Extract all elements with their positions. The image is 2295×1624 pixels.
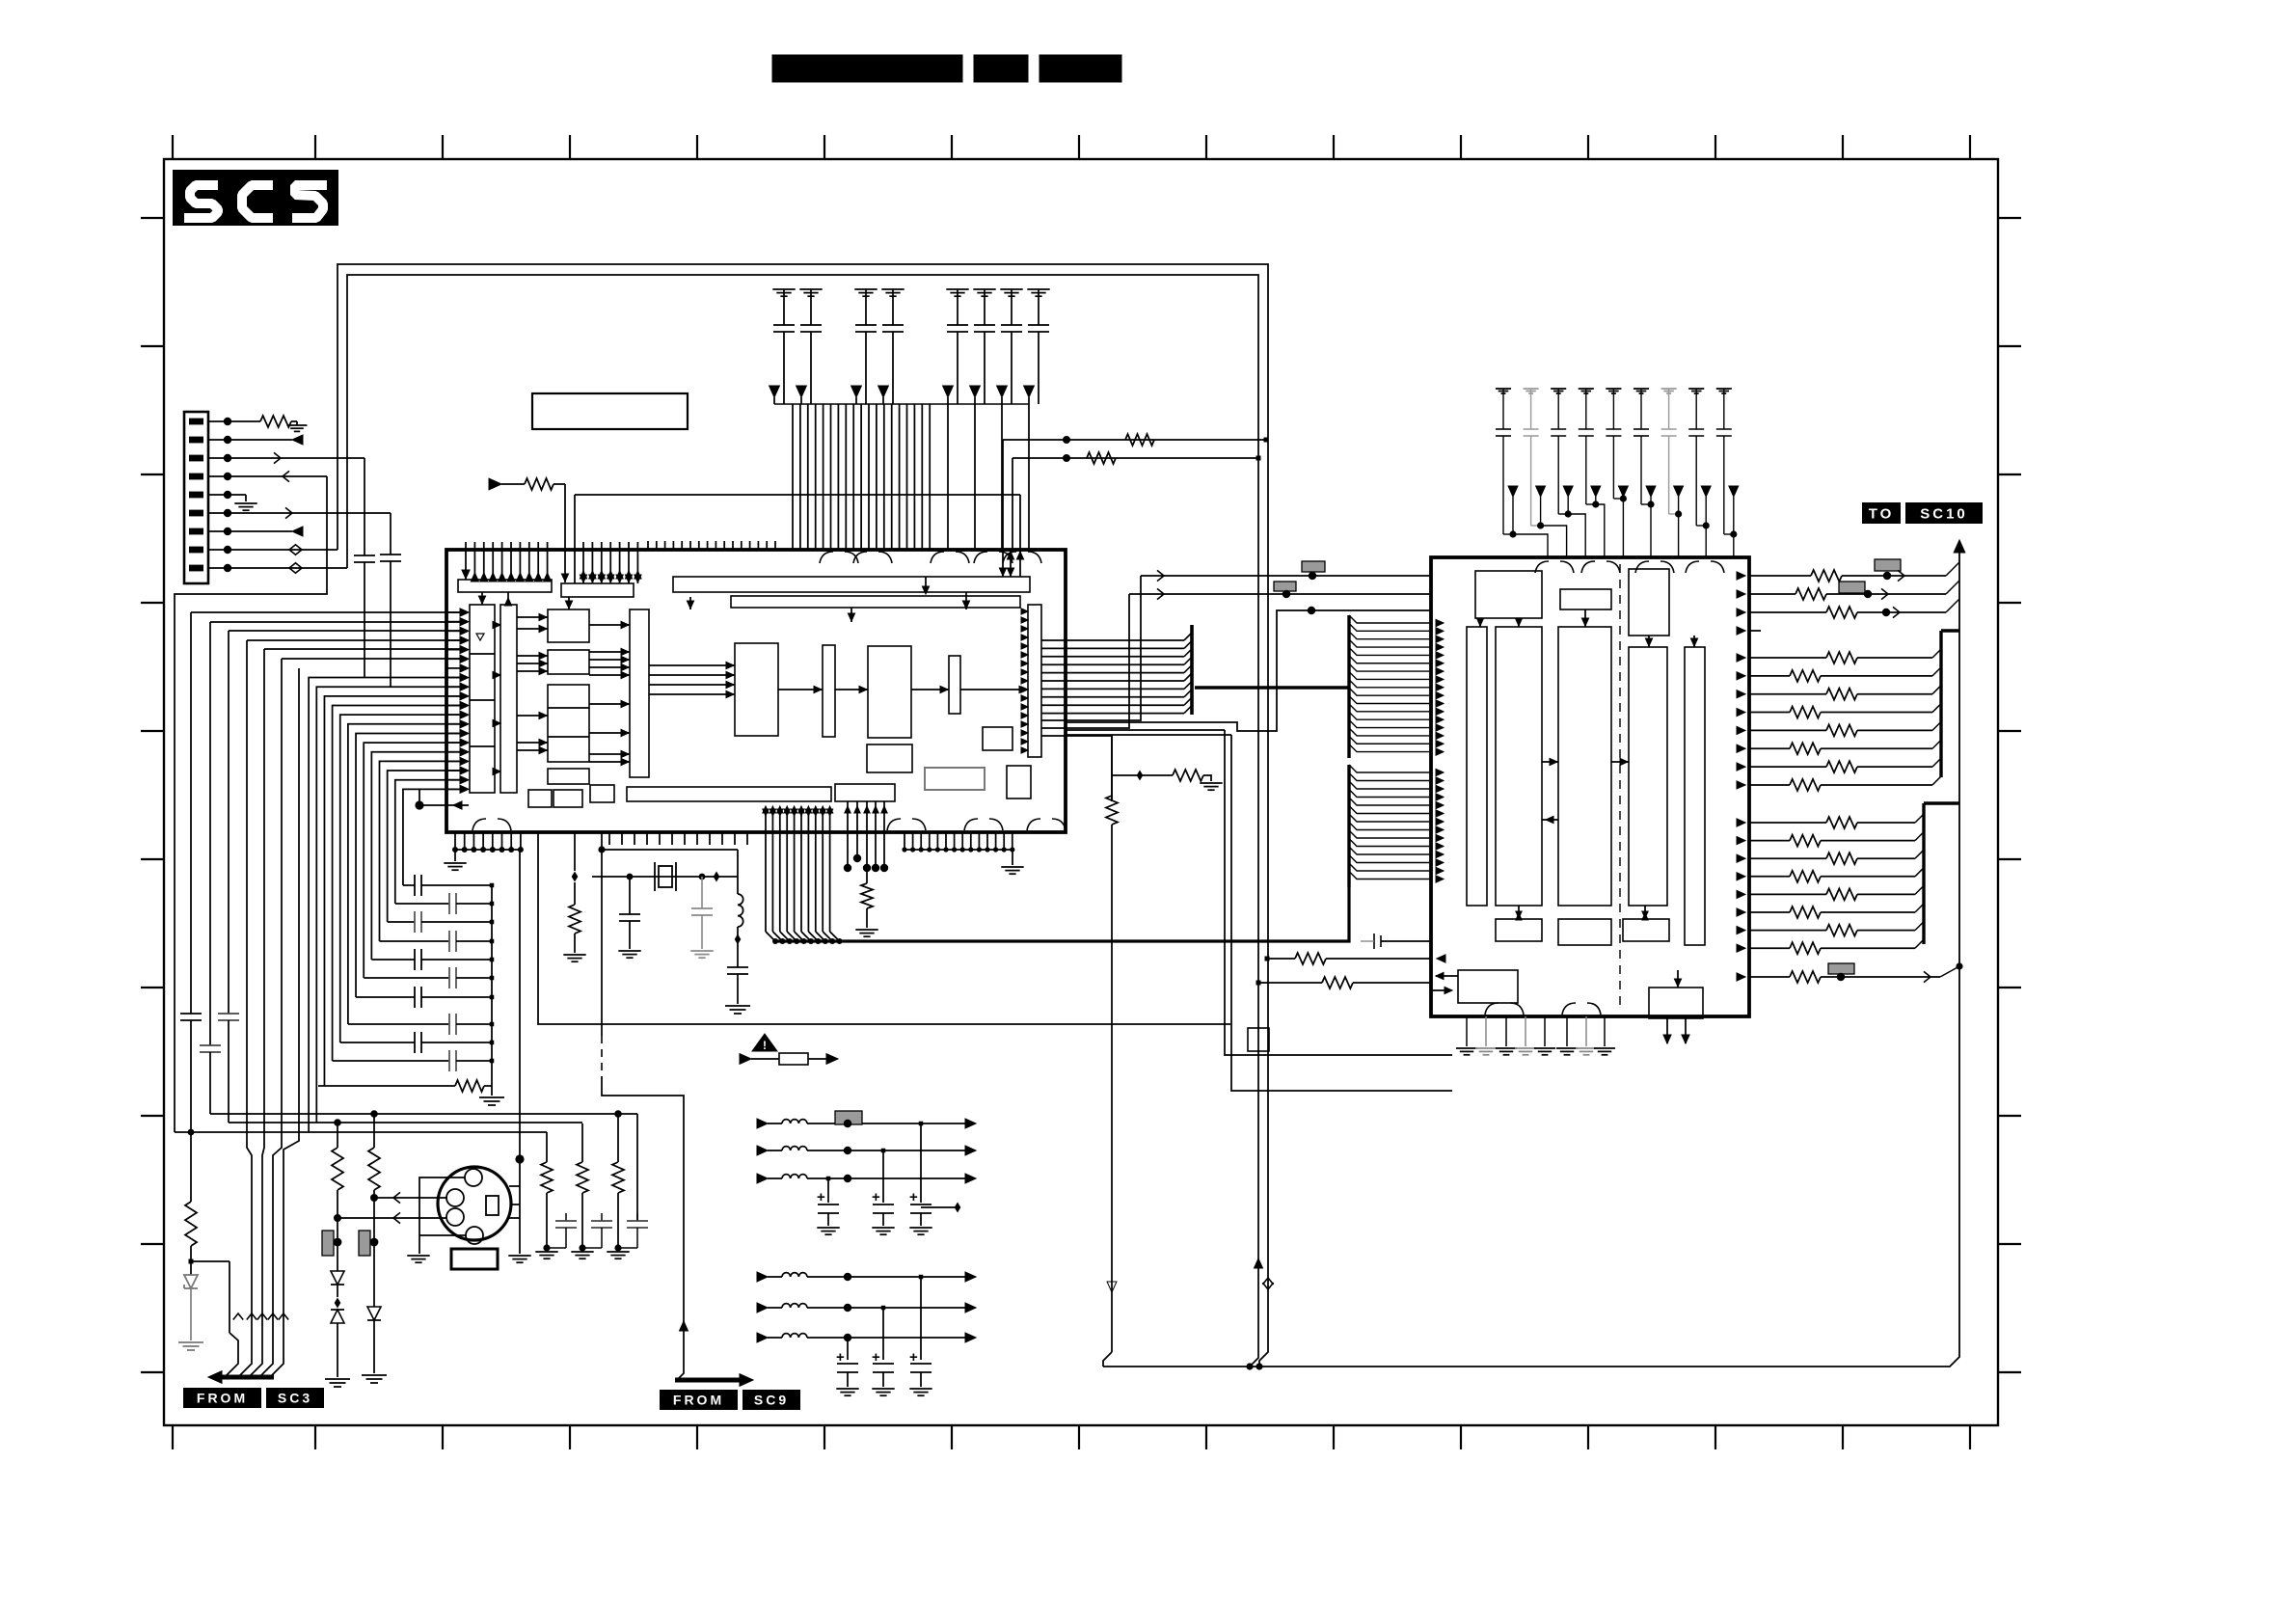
- U1 input header 1: [458, 580, 552, 592]
- diamond node: [735, 934, 742, 945]
- wire J1 pin2 with arrow: [228, 439, 292, 441]
- svg-text:SC3: SC3: [278, 1391, 312, 1406]
- IC U1 bottom-edge bus arcs: [472, 819, 1066, 830]
- connector J1: [184, 412, 208, 583]
- U2 decoupling cap bank: [1496, 389, 1739, 557]
- resistor R below U1: [866, 868, 868, 883]
- U2 bottom ground pins: [1456, 1003, 1615, 1055]
- connector J1 pin wires: [208, 418, 260, 572]
- capacitor C at drop: [727, 966, 748, 968]
- U1 block b4: [548, 769, 589, 784]
- row2 to U2 with gray box: [1129, 593, 1431, 595]
- IC U1 top-edge bus arcs: [820, 552, 1041, 563]
- U2 left block arrows: [1436, 972, 1444, 979]
- capacitor ladder to bus: [333, 875, 495, 1071]
- U1 long bar A: [673, 577, 1030, 592]
- LC filter rows lower: [757, 1272, 976, 1342]
- left wire x198 chain: [190, 612, 192, 1014]
- resistor on J1 pin1: [260, 416, 291, 427]
- title bar redaction 2: [974, 55, 1028, 82]
- resistor R x388: [373, 1114, 375, 1148]
- wire J1 pin9: [228, 567, 347, 569]
- U1 block b3: [548, 685, 589, 762]
- ground below drop: [725, 1005, 750, 1007]
- svg-text:+: +: [817, 1189, 825, 1205]
- U2 internal wires: [1476, 609, 1697, 988]
- resistor R with diamond below U1: [574, 832, 576, 871]
- DIN connector circle: [438, 1167, 511, 1240]
- U1 block mid-bottom: [867, 744, 912, 772]
- DIN key rect: [486, 1196, 499, 1215]
- U2 bottom-right block pins: [1666, 1018, 1668, 1043]
- U1 block b6: [553, 790, 582, 807]
- svg-text:SC10: SC10: [1920, 505, 1968, 522]
- TO SC10 arrowhead: [1954, 540, 1965, 553]
- wire J1 pin6: [228, 512, 391, 514]
- IC U2 outline: [1431, 557, 1749, 1016]
- value box (blank): [532, 393, 688, 429]
- U2 output last row: [1737, 973, 1745, 981]
- U1 block s3: [1007, 766, 1031, 798]
- sheet label SC5: [173, 170, 338, 226]
- diamond stub: [921, 1206, 956, 1208]
- wire right drop: [737, 850, 739, 894]
- U1 block b5: [528, 790, 552, 807]
- U1 left lower pin: [415, 800, 423, 809]
- label FROM SC9: [660, 1390, 738, 1410]
- U1 input header 2: [561, 583, 634, 597]
- ground at J1 pin1: [291, 420, 297, 422]
- U1 block s1: [983, 727, 1012, 750]
- zener diode D x198: [184, 1275, 198, 1288]
- arrow on bus pair: [1255, 1259, 1263, 1268]
- long wire x1153 with resistor: [1111, 736, 1113, 801]
- U1 bottom-right pins to ground: [902, 832, 1023, 874]
- title bar redaction 1: [772, 55, 962, 82]
- feed wire y1164: [229, 1122, 582, 1123]
- small box on pair: [1248, 1028, 1269, 1051]
- U1 bottom-left pins to ground: [444, 832, 524, 870]
- U2 row stub: [1737, 627, 1745, 635]
- junction dots bottom bus: [1246, 1363, 1253, 1369]
- U1 bottom header 1: [627, 787, 831, 801]
- wire row to riser A: [1041, 576, 1141, 720]
- svg-text:FROM: FROM: [197, 1391, 248, 1406]
- U1 bottom header 2: [835, 784, 895, 801]
- inductor L vertical: [738, 894, 743, 927]
- U1 block s2 gray: [925, 768, 985, 790]
- wire row to riser B: [1041, 594, 1129, 728]
- capacitor C below crystal right: [701, 877, 703, 908]
- LC filter rows upper: [757, 1119, 976, 1183]
- electrolytic caps lower: [836, 1277, 932, 1395]
- diode D x388: [367, 1307, 381, 1320]
- U2 bottom-left block: [1458, 970, 1518, 1003]
- U1 header1 pin arrows: [462, 542, 552, 582]
- U1 block big1: [735, 643, 778, 736]
- U1 long bar B: [731, 596, 1020, 608]
- U1 block col m: [823, 645, 835, 737]
- FROM SC9 bus: [675, 1378, 747, 1383]
- U1 output fan to bus spine: [1041, 625, 1192, 715]
- resistor to ground mid: [1137, 771, 1144, 781]
- border frame: [141, 135, 2021, 1449]
- input arrow with resistor R: [489, 478, 501, 490]
- left wire x218 feed: [209, 622, 211, 1045]
- svg-text:!: !: [763, 1039, 767, 1052]
- resistor R x568: [546, 1132, 548, 1162]
- wire riser pair to U2 bottom: [1225, 730, 1452, 1055]
- capacitor C trio: [565, 1213, 567, 1221]
- U2 output rows group C: [1737, 803, 1959, 954]
- diode D2 x348 inverted: [331, 1310, 344, 1323]
- svg-text:+: +: [909, 1189, 918, 1205]
- U1 header2 pin arrows: [580, 542, 641, 583]
- title bar redaction 3: [1039, 55, 1121, 82]
- U1 bottom pin stubs: [609, 832, 747, 845]
- arrow on FROM SC9 riser: [680, 1321, 688, 1331]
- U2 top blocks: [1475, 571, 1542, 618]
- resistor R x198: [185, 1202, 197, 1246]
- bottom long bus wire: [1103, 546, 1959, 1367]
- U2 output rows group B: [1737, 631, 1959, 791]
- DIN pins: [465, 1169, 482, 1186]
- svg-text:TO: TO: [1869, 505, 1895, 522]
- thick bus to U2 spine2: [775, 887, 1349, 941]
- U2 input bus fan upper: [1349, 615, 1444, 758]
- wire J1 pin7 with arrow: [228, 530, 292, 532]
- label TO SC10: [1862, 502, 1901, 524]
- resistor R x350: [337, 1123, 338, 1148]
- U1 right pin column: [1028, 605, 1041, 757]
- wire drop to bottom-left bus: [538, 832, 1230, 1024]
- wire J1 pin8: [228, 549, 337, 551]
- left wire x237 feed: [228, 631, 229, 1014]
- feed wire y1155: [210, 1113, 637, 1115]
- DIN right bus: [519, 850, 521, 1159]
- resistor R x642: [617, 1114, 619, 1162]
- DIN wires left: [374, 1197, 446, 1199]
- wire J1 pin4: [228, 475, 327, 477]
- U1 block col n: [949, 656, 960, 714]
- thick bus U1 to U2: [1195, 686, 1349, 690]
- capacitor C in pin3 drop: [364, 458, 365, 555]
- U2 top edge arcs: [1535, 561, 1724, 573]
- svg-text:FROM: FROM: [673, 1393, 724, 1408]
- U2 small blocks: [1496, 919, 1542, 941]
- U2 bottom-right block: [1649, 988, 1703, 1018]
- FROM SC3 wire bundle: [208, 640, 299, 1383]
- wire row with resistor R to bus A: [1003, 439, 1266, 441]
- ladder bus and resistor to ground: [491, 885, 493, 1086]
- rows from bus pair into U2: [1267, 958, 1295, 960]
- cap bank drop wires: [793, 404, 1029, 550]
- crystal X1: [659, 866, 672, 887]
- wire row with resistor R to bus B: [1012, 457, 1258, 459]
- wire J1 pin5 to ground: [228, 494, 246, 496]
- U1 block colB: [500, 605, 517, 793]
- wire J1 pin3: [228, 457, 364, 459]
- row3 to U2: [1066, 610, 1431, 731]
- IC U1 outline: [446, 550, 1066, 832]
- U2 output rows group A: [1737, 559, 1959, 635]
- U1 block b2: [548, 650, 589, 674]
- row1 to U2 with gray box: [1141, 575, 1431, 577]
- U1 block b1: [548, 609, 589, 642]
- resistor R x605: [581, 1123, 583, 1162]
- diode D x348: [331, 1271, 344, 1285]
- U1 block b7: [590, 785, 614, 802]
- fuse F with arrows: [740, 1054, 751, 1065]
- svg-text:SC9: SC9: [754, 1393, 789, 1408]
- U1 block colC: [630, 609, 649, 777]
- svg-text:+: +: [872, 1189, 880, 1205]
- U1 top edge stubs: [648, 541, 775, 550]
- U1 left pin arrows: [446, 609, 469, 793]
- dashed net wire: [601, 832, 603, 1036]
- inner nested bundle to ladder: [309, 678, 460, 1132]
- label FROM SC3: [183, 1388, 261, 1408]
- wire top loop A: [337, 264, 1268, 1367]
- U2 input bus fan lower: [1349, 765, 1444, 887]
- U1 bottom header pins bend to bus: [763, 806, 843, 944]
- U2 left aux rows: [1381, 940, 1431, 942]
- U2 tall columns: [1467, 627, 1487, 906]
- ground below zener: [178, 1341, 203, 1343]
- gray part box 2: [359, 1231, 370, 1256]
- gray part box LC: [835, 1111, 862, 1124]
- capacitor C below crystal left: [629, 877, 631, 914]
- feed wire y1174: [175, 1131, 547, 1133]
- wire top loop B: [347, 275, 1258, 1367]
- capacitor C in pin6 drop: [390, 513, 391, 555]
- decoupling capacitor bank top: [769, 289, 1050, 404]
- crystal circuit row: [592, 876, 738, 878]
- DIN label box: [451, 1249, 498, 1269]
- U1 block colA: [470, 605, 495, 793]
- wire y513 to IC: [575, 494, 1020, 496]
- wire row to long drop: [1041, 736, 1112, 801]
- wire top x-row: [602, 849, 738, 851]
- U1 bottom pins with dots: [844, 801, 888, 872]
- cap bank bus: [774, 403, 1029, 405]
- U1 internal wires: [478, 550, 1028, 775]
- gray part box 1: [322, 1231, 334, 1256]
- warning triangle: [752, 1034, 777, 1051]
- U1 block big2: [868, 646, 911, 738]
- electrolytic caps upper: [817, 1123, 932, 1234]
- left nested wire bundle outer: [175, 476, 460, 1132]
